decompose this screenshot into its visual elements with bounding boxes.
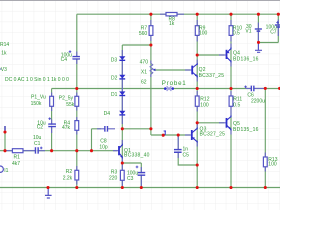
svg-text:C6: C6 [247,92,254,98]
svg-text:BC337_25: BC337_25 [199,73,225,79]
svg-text:470: 470 [140,60,149,66]
svg-text:100: 100 [199,30,208,36]
svg-text:P1_Vu: P1_Vu [31,95,46,101]
svg-text:X1: X1 [141,70,147,76]
svg-text:4k7: 4k7 [12,161,20,167]
svg-text:C4: C4 [61,57,68,63]
svg-text:10p: 10p [99,145,108,151]
svg-text:55k: 55k [66,102,75,108]
svg-text:62: 62 [141,80,147,86]
svg-text:BD135_16: BD135_16 [233,127,259,133]
svg-text:C2: C2 [37,125,44,131]
svg-text:1k: 1k [169,21,175,27]
svg-text:D3: D3 [111,57,118,63]
svg-text:BC338_40: BC338_40 [124,153,150,159]
svg-text:150k: 150k [31,101,42,107]
svg-text:C5: C5 [183,152,190,158]
svg-text:D2: D2 [111,76,118,82]
svg-text:220: 220 [109,175,118,181]
svg-text:Probe1: Probe1 [162,80,187,87]
svg-text:BC327_25: BC327_25 [200,132,226,138]
svg-text:100: 100 [268,162,277,168]
svg-text:R14: R14 [0,42,9,48]
svg-text:R2: R2 [66,169,73,175]
svg-text:C7: C7 [270,30,277,36]
svg-text:D4: D4 [104,111,111,117]
svg-text:2.2k: 2.2k [63,175,73,181]
svg-text:D1: D1 [111,92,118,98]
svg-text:I1: I1 [4,168,8,174]
svg-text:R1: R1 [14,155,21,161]
svg-text:100: 100 [200,102,209,108]
svg-text:DC 0 AC 1 0 Sin 0 1 1k 0 0 0: DC 0 AC 1 0 Sin 0 1 1k 0 0 0 [5,77,69,83]
svg-text:BD136_16: BD136_16 [233,56,259,62]
svg-text:1k: 1k [1,50,7,56]
svg-text:P2_5y: P2_5y [59,95,74,101]
svg-text:0.5: 0.5 [233,31,240,37]
svg-text:C1: C1 [34,141,41,147]
svg-text:560: 560 [139,31,148,37]
svg-text:47k: 47k [62,125,71,131]
svg-text:2200u: 2200u [251,99,265,105]
svg-text:V3: V3 [1,67,7,73]
svg-text:C3: C3 [127,176,134,182]
svg-text:Q2: Q2 [199,67,206,73]
svg-text:V1: V1 [245,29,251,35]
svg-text:0.5: 0.5 [233,102,240,108]
